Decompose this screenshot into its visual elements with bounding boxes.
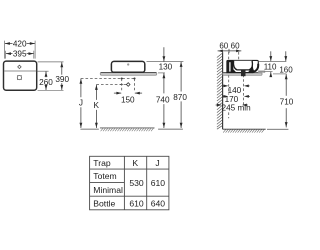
svg-text:395: 395 xyxy=(13,50,27,59)
dim 60-60 line xyxy=(218,50,242,52)
basin section outline xyxy=(227,60,258,72)
counter slab top edge (side) xyxy=(223,72,262,74)
dim 130 arrow xyxy=(163,56,166,61)
faucet hole (diamond) xyxy=(18,65,21,68)
dim 710 arrows xyxy=(285,74,288,79)
basin section bowl xyxy=(233,61,252,70)
dashed drop line left xyxy=(121,79,123,93)
floor datum tick (right drawing) xyxy=(267,128,288,130)
svg-text:Totem: Totem xyxy=(93,171,116,181)
dim 260 line xyxy=(45,71,47,90)
wall hatch xyxy=(217,53,222,129)
dim 870 arrows xyxy=(180,62,183,67)
supply dashed line V1 xyxy=(228,52,230,95)
dashed drop line right xyxy=(134,79,136,93)
extension line from rim top (right) xyxy=(259,60,286,62)
svg-text:140: 140 xyxy=(228,86,242,95)
crosshair on drop line xyxy=(120,84,123,86)
svg-text:530: 530 xyxy=(129,178,144,188)
extension line at outlet level xyxy=(259,71,273,73)
svg-text:60: 60 xyxy=(219,41,228,50)
dim 110 lower arrow xyxy=(270,72,272,76)
drain dashed line V3 xyxy=(242,70,244,105)
dashed axis line K level xyxy=(96,84,126,86)
dim 395 line xyxy=(6,53,34,55)
svg-text:Bottle: Bottle xyxy=(93,198,115,208)
supply point right xyxy=(133,77,135,79)
dim 160 upper line xyxy=(285,51,287,61)
svg-text:170: 170 xyxy=(225,95,239,104)
dim 740 arrows xyxy=(163,73,166,78)
svg-text:130: 130 xyxy=(159,63,173,72)
svg-text:110: 110 xyxy=(264,63,277,72)
svg-text:740: 740 xyxy=(156,96,170,105)
dim 390 top extension line xyxy=(38,61,64,63)
svg-text:870: 870 xyxy=(173,93,187,102)
dim 870 line xyxy=(180,62,182,128)
svg-text:Trap: Trap xyxy=(93,158,111,168)
drain (circle with cross) xyxy=(17,75,21,79)
dim 710 line xyxy=(285,74,287,127)
dashed axis line J level xyxy=(81,78,135,80)
table row line 1 xyxy=(90,168,169,170)
svg-text:K: K xyxy=(93,101,99,110)
table column divider 1 xyxy=(123,156,125,210)
basin drain dot (front) xyxy=(127,63,129,65)
dim 60-60 arrows and tick xyxy=(218,50,223,53)
dim K line xyxy=(95,85,97,128)
extension line from basin top xyxy=(147,61,184,63)
floor hatch (middle) xyxy=(100,127,155,129)
dim K arrows xyxy=(95,85,98,90)
supply point left xyxy=(121,77,123,79)
outlet stub xyxy=(258,71,264,73)
svg-text:710: 710 xyxy=(280,98,294,107)
svg-text:60: 60 xyxy=(231,41,240,50)
counter slab (front view) xyxy=(100,72,157,75)
svg-text:610: 610 xyxy=(151,178,166,188)
dim 740 line xyxy=(163,73,165,128)
table outer border xyxy=(90,156,169,210)
basin (front view) xyxy=(111,61,144,72)
basin section left mass xyxy=(227,61,235,73)
svg-text:160: 160 xyxy=(279,66,293,75)
svg-text:150: 150 xyxy=(121,95,135,104)
dim 395 extension lines xyxy=(6,51,34,59)
drain block xyxy=(241,70,246,76)
dim J arrows xyxy=(80,79,83,84)
svg-text:610: 610 xyxy=(129,198,144,208)
dim 245 min xyxy=(216,104,218,106)
dim 170 xyxy=(223,95,224,97)
dim 110 upper line xyxy=(270,51,272,61)
floor datum tick left xyxy=(80,128,98,130)
basin section right wall xyxy=(252,64,258,73)
dim 150 right arrow xyxy=(135,92,142,94)
basin outline (plan) xyxy=(4,61,37,90)
table row line 2 (first column only) xyxy=(90,181,125,183)
dim 390 arrows xyxy=(60,62,63,67)
floor line (right) xyxy=(223,128,266,130)
dim 420 arrows xyxy=(5,42,10,45)
dim 390 bottom extension line xyxy=(38,89,64,91)
svg-text:K: K xyxy=(132,158,138,168)
table column divider 2 xyxy=(146,156,148,210)
svg-text:640: 640 xyxy=(151,198,166,208)
counter slab (side) xyxy=(223,73,262,76)
svg-text:245 min: 245 min xyxy=(222,104,252,113)
svg-text:Minimal: Minimal xyxy=(93,185,123,195)
dim J line xyxy=(80,79,82,129)
dim 420 line xyxy=(5,43,35,45)
counter slab top edge xyxy=(101,72,157,74)
extension line at counter level xyxy=(158,72,165,74)
svg-text:420: 420 xyxy=(13,39,27,48)
dim 260 arrows xyxy=(45,72,48,77)
svg-text:260: 260 xyxy=(39,78,53,87)
basin inner edge line xyxy=(4,70,36,72)
dim 420 extension lines xyxy=(5,41,35,59)
supply dashed line V2 xyxy=(238,52,240,60)
dim 140 xyxy=(223,85,224,87)
drain point (diamond) xyxy=(126,83,130,87)
floor datum tick right xyxy=(158,128,183,130)
svg-text:J: J xyxy=(155,158,159,168)
extension line at counter level (right) xyxy=(273,73,287,75)
floor hatch (right) xyxy=(223,129,264,132)
wall line xyxy=(222,52,224,129)
dim 395 arrows xyxy=(6,52,11,55)
svg-text:J: J xyxy=(79,98,83,107)
dim 150 left arrow xyxy=(114,92,121,94)
dim 390 line xyxy=(61,62,63,90)
dim 130 line xyxy=(163,47,165,61)
table row line 3 xyxy=(90,195,169,197)
svg-text:390: 390 xyxy=(55,75,69,84)
dim 260 extension line xyxy=(37,70,48,72)
